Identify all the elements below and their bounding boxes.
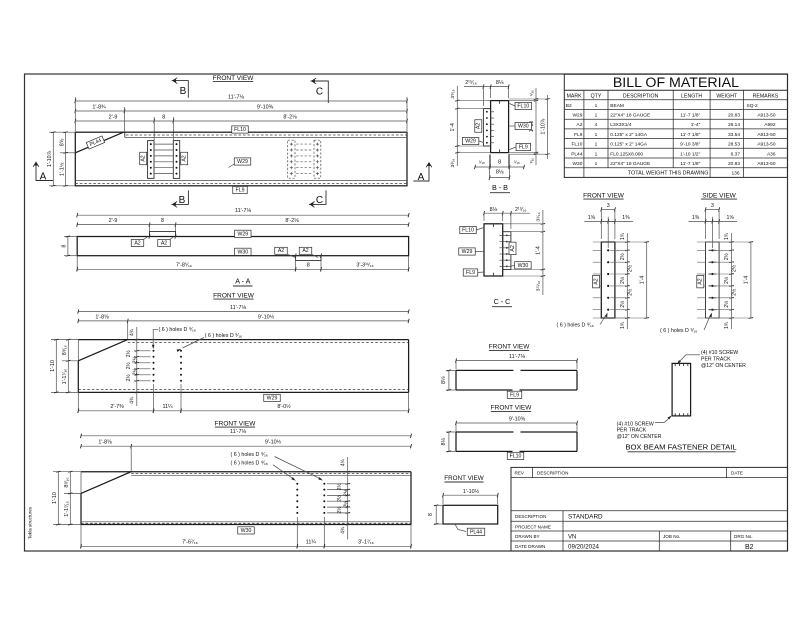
svg-text:1'-10⅞: 1'-10⅞: [540, 118, 546, 134]
svg-text:11'-7 1/8": 11'-7 1/8": [680, 161, 700, 167]
svg-text:22"X4" 18 GAUGE: 22"X4" 18 GAUGE: [610, 161, 650, 167]
label A2 right: [181, 152, 188, 165]
svg-text:1⅝: 1⅝: [726, 215, 734, 221]
svg-text:QTY: QTY: [591, 94, 602, 100]
svg-text:8: 8: [428, 513, 434, 516]
svg-text:7'-8⁵⁄₁₆: 7'-8⁵⁄₁₆: [176, 263, 192, 269]
svg-text:8: 8: [162, 115, 165, 121]
A2 detail top dims: [706, 208, 720, 210]
svg-text:9'-10⅜: 9'-10⅜: [509, 417, 526, 423]
svg-text:A2: A2: [302, 248, 308, 254]
svg-text:FRONT VIEW: FRONT VIEW: [444, 475, 483, 482]
svg-text:1⅝: 1⅝: [588, 215, 596, 221]
svg-text:BOX BEAM FASTENER DETAIL: BOX BEAM FASTENER DETAIL: [625, 443, 737, 452]
FL9 height dim: [446, 369, 456, 371]
label FL10: [232, 126, 249, 133]
svg-text:9'-10½: 9'-10½: [258, 313, 275, 320]
svg-text:W30: W30: [237, 249, 248, 255]
svg-text:¹⁄₁₆: ¹⁄₁₆: [514, 159, 520, 164]
W29 hole spacing chain: [136, 327, 138, 406]
svg-text:( 6 ) holes D ⁹⁄₁₆: ( 6 ) holes D ⁹⁄₁₆: [231, 461, 268, 467]
svg-text:9'-10½: 9'-10½: [265, 439, 282, 446]
svg-text:A2: A2: [141, 155, 147, 161]
svg-text:TOTAL WEIGHT THIS DRAWING: TOTAL WEIGHT THIS DRAWING: [628, 171, 709, 177]
svg-text:11'-7⅛: 11'-7⅛: [228, 95, 244, 101]
svg-text:2½: 2½: [619, 276, 626, 284]
svg-text:DATE DRAWN: DATE DRAWN: [515, 544, 545, 549]
svg-text:3¹¹⁄₁₆: 3¹¹⁄₁₆: [536, 281, 542, 291]
svg-text:FL9: FL9: [466, 270, 475, 276]
svg-text:A2: A2: [134, 240, 140, 246]
section marker A left: [36, 166, 54, 181]
svg-text:1¾: 1¾: [724, 321, 730, 329]
W30 bottom dims: [296, 517, 298, 548]
svg-text:FRONT VIEW: FRONT VIEW: [491, 405, 533, 412]
angle A2 pair near left: [148, 141, 154, 179]
svg-text:2½: 2½: [723, 300, 730, 308]
label A2 left: [140, 152, 147, 165]
svg-text:8: 8: [307, 263, 310, 269]
svg-text:FL10: FL10: [234, 127, 246, 133]
A2 detail overall dim 1-4: [646, 242, 648, 318]
svg-text:0.125" x 2" 14GA: 0.125" x 2" 14GA: [610, 142, 648, 148]
panel W29 dashed flanges: [128, 342, 409, 344]
A-A left dim 8: [64, 236, 77, 238]
svg-text:1'-8¾: 1'-8¾: [92, 105, 106, 111]
svg-text:STANDARD: STANDARD: [568, 513, 603, 520]
svg-text:1'-10⅞: 1'-10⅞: [47, 150, 53, 167]
section marker B bottom: [172, 190, 189, 204]
view1 left dims: [49, 131, 75, 133]
svg-text:1'-10: 1'-10: [52, 492, 58, 504]
W30 hole columns: [296, 483, 298, 485]
A2 detail label: [697, 275, 704, 288]
svg-text:11'-7⅛: 11'-7⅛: [230, 305, 246, 311]
svg-text:( 6 ) holes D ⁹⁄₁₆: ( 6 ) holes D ⁹⁄₁₆: [557, 322, 594, 328]
svg-text:L3X3X1/4: L3X3X1/4: [610, 122, 631, 128]
svg-text:FL9: FL9: [510, 392, 519, 398]
svg-text:2½: 2½: [125, 373, 132, 381]
svg-text:A992: A992: [764, 122, 776, 128]
svg-text:A - A: A - A: [235, 276, 250, 285]
FL10 height dim: [446, 431, 456, 433]
svg-text:4¾: 4¾: [129, 328, 135, 336]
C-C box center ticks: [492, 224, 494, 227]
svg-text:A: A: [40, 171, 47, 182]
svg-text:4: 4: [595, 122, 598, 128]
svg-text:8⅛: 8⅛: [496, 170, 504, 176]
svg-text:BEAM: BEAM: [610, 103, 624, 109]
svg-text:11'-7⅛: 11'-7⅛: [235, 208, 251, 214]
panel W30 dashed flanges: [131, 473, 411, 475]
svg-text:A2: A2: [698, 278, 704, 284]
svg-text:FL9: FL9: [574, 132, 583, 138]
section B-B box: [491, 101, 509, 153]
label W29 with leader: [229, 164, 236, 168]
svg-text:FL10: FL10: [571, 142, 582, 148]
svg-text:PL44: PL44: [571, 151, 583, 157]
A2 detail outline: [706, 242, 720, 318]
svg-text:7'-6⁷⁄₁₆: 7'-6⁷⁄₁₆: [182, 540, 198, 546]
svg-text:8⅝: 8⅝: [59, 138, 65, 146]
svg-text:B: B: [179, 195, 186, 206]
svg-text:2½: 2½: [125, 349, 132, 357]
view1 extension lines: [74, 97, 76, 131]
C-C right chain dims: [542, 210, 544, 295]
svg-text:1¾: 1¾: [620, 321, 626, 329]
svg-text:1⅜: 1⅜: [622, 215, 630, 221]
svg-text:SQ-2: SQ-2: [747, 103, 759, 109]
svg-text:2½: 2½: [343, 488, 350, 496]
FL9 dim 11-7 1/8: [456, 360, 577, 362]
svg-text:2½: 2½: [723, 276, 730, 284]
svg-text:FRONT VIEW: FRONT VIEW: [213, 75, 255, 82]
svg-text:W30: W30: [518, 263, 529, 269]
svg-text:8: 8: [498, 159, 501, 165]
svg-text:20.83: 20.83: [728, 161, 740, 167]
panel W29 web slope cut: [78, 340, 127, 361]
track FL9 hidden lines: [75, 180, 407, 182]
svg-text:( 6 ) holes D ⁹⁄₁₆: ( 6 ) holes D ⁹⁄₁₆: [231, 452, 268, 458]
svg-text:11¼: 11¼: [162, 404, 173, 410]
svg-text:FRONT VIEW: FRONT VIEW: [583, 192, 625, 199]
label FL10: [507, 452, 524, 459]
B-B left chain dims: [456, 86, 458, 166]
svg-text:A36: A36: [767, 151, 776, 157]
A-A bottom dim 7-8 5/16 / 8 / 3-3 11/16: [295, 261, 297, 272]
A-A top angle A2 bump: [150, 232, 176, 237]
svg-text:1'-4: 1'-4: [536, 246, 542, 255]
svg-text:LENGTH: LENGTH: [681, 94, 702, 100]
svg-text:1: 1: [595, 103, 598, 109]
track FL10 hidden lines: [124, 132, 126, 137]
section marker C bottom: [309, 190, 326, 204]
drawing sheet frame: [25, 74, 788, 551]
svg-text:FL9: FL9: [519, 145, 528, 151]
B-B bottom dims: [475, 166, 524, 168]
svg-text:A2: A2: [278, 248, 284, 254]
W30 dim 1-8 5/8 / 9-10 1/2: [81, 445, 411, 447]
svg-text:8⁹⁄₁₆: 8⁹⁄₁₆: [64, 477, 70, 487]
svg-text:2½: 2½: [626, 264, 633, 272]
svg-text:W29: W29: [462, 249, 473, 255]
svg-text:FRONT VIEW: FRONT VIEW: [213, 292, 255, 299]
svg-text:W29: W29: [573, 113, 583, 119]
title block border: [511, 467, 788, 551]
svg-text:W29: W29: [237, 159, 248, 165]
svg-text:20.83: 20.83: [728, 113, 740, 119]
svg-text:3³⁄₁₆: 3³⁄₁₆: [450, 159, 456, 168]
label W30: [238, 527, 255, 534]
panel W29 outline: [78, 339, 408, 341]
svg-text:FL10: FL10: [517, 104, 529, 110]
view1 dim 2-9 / 8 / 8-2 1/8: [75, 120, 407, 122]
svg-text:1¾: 1¾: [620, 232, 626, 240]
label W29: [264, 394, 281, 401]
A-A bottom angle A2 bump: [296, 256, 321, 261]
svg-text:PER TRACK: PER TRACK: [617, 428, 647, 434]
svg-text:DESCRIPTION: DESCRIPTION: [537, 471, 568, 476]
svg-text:DRAWN BY: DRAWN BY: [515, 534, 540, 539]
A2 detail hole chain: [731, 233, 733, 329]
title block rows: [511, 510, 788, 512]
panel W30 outline: [81, 471, 411, 473]
svg-text:26.14: 26.14: [728, 122, 740, 128]
svg-text:22"X4" 18 GAUGE: 22"X4" 18 GAUGE: [610, 113, 650, 119]
A2 detail holes: [607, 249, 609, 251]
svg-text:A2: A2: [476, 123, 482, 129]
B-B right chain dims: [535, 88, 537, 165]
svg-text:2½: 2½: [731, 264, 738, 272]
A2 detail label: [593, 275, 600, 288]
svg-text:9'-10 3/8": 9'-10 3/8": [680, 142, 701, 148]
svg-text:W30: W30: [518, 124, 529, 130]
svg-text:1'-10½: 1'-10½: [463, 488, 480, 495]
C-C W30 strip with A2 bolts: [503, 232, 511, 270]
A-A label W30: [235, 248, 252, 255]
PL44 height dim: [434, 504, 443, 506]
PL44 dim 1-10 1/2: [443, 494, 498, 496]
svg-text:REV: REV: [515, 471, 525, 476]
svg-text:1'-10: 1'-10: [50, 360, 56, 372]
svg-text:( 6 ) holes D ⁹⁄₁₆: ( 6 ) holes D ⁹⁄₁₆: [159, 327, 196, 333]
svg-text:C: C: [316, 86, 323, 97]
A-A labels A2 bottom: [275, 247, 288, 254]
svg-text:JOB No.: JOB No.: [663, 534, 680, 539]
svg-text:DATE: DATE: [731, 471, 743, 476]
svg-text:FL10: FL10: [462, 228, 474, 234]
svg-text:A913-50: A913-50: [757, 161, 775, 167]
svg-text:8: 8: [161, 218, 164, 224]
svg-text:8'-2⅛: 8'-2⅛: [283, 115, 297, 121]
svg-text:C - C: C - C: [494, 297, 511, 306]
svg-text:1⅜: 1⅜: [692, 215, 700, 221]
svg-text:3⁵⁄₁₆: 3⁵⁄₁₆: [450, 89, 456, 98]
svg-text:2½: 2½: [132, 355, 139, 363]
svg-text:8⅛: 8⅛: [496, 80, 504, 86]
svg-text:A2: A2: [161, 240, 167, 246]
plate PL44 slope: [75, 132, 123, 153]
svg-text:11'-7⅛: 11'-7⅛: [230, 429, 246, 435]
svg-text:A2: A2: [594, 278, 600, 284]
B-B top dims: [483, 86, 508, 88]
svg-text:1'-4": 1'-4": [691, 122, 701, 128]
svg-text:2½: 2½: [619, 300, 626, 308]
B-B W29 strip with A2 bolts: [483, 109, 490, 146]
svg-text:1'-1⁷⁄₁₆: 1'-1⁷⁄₁₆: [62, 369, 68, 385]
W30 left dims: [53, 471, 81, 473]
svg-text:1'-8⅝: 1'-8⅝: [98, 440, 112, 446]
svg-text:1'-10 1/2": 1'-10 1/2": [680, 151, 701, 157]
W29 left dims: [51, 339, 78, 341]
A2 detail centerline: [711, 217, 713, 248]
C-C labels: [460, 226, 477, 233]
A2 detail holes: [711, 249, 713, 251]
svg-text:8'-2⅛: 8'-2⅛: [285, 218, 299, 224]
svg-text:2½: 2½: [731, 288, 738, 296]
svg-text:11'-7⅛: 11'-7⅛: [509, 354, 525, 360]
A-A label W29: [235, 230, 252, 237]
svg-text:A2: A2: [510, 245, 516, 251]
svg-text:1'-8⅝: 1'-8⅝: [95, 314, 109, 320]
label PL44 with leader: [455, 524, 466, 531]
svg-text:FL9: FL9: [236, 188, 245, 194]
W30 hole spacing chain: [347, 457, 349, 540]
svg-text:(4) #10 SCREW: (4) #10 SCREW: [701, 350, 738, 356]
section A-A dim 2-9 / 8 / 8-2 1/8: [77, 224, 408, 226]
svg-text:2½: 2½: [125, 361, 132, 369]
svg-text:1: 1: [595, 151, 598, 157]
svg-text:136: 136: [731, 171, 739, 177]
panel W30 web slope cut: [81, 472, 131, 494]
svg-text:11¼: 11¼: [306, 540, 317, 546]
svg-text:DESCRIPTION: DESCRIPTION: [515, 514, 546, 519]
svg-text:2¹⁵⁄₁₆: 2¹⁵⁄₁₆: [465, 80, 476, 86]
svg-text:8⅛: 8⅛: [441, 376, 447, 384]
svg-text:2½: 2½: [336, 494, 343, 502]
B-B box center ticks: [499, 101, 501, 104]
svg-text:3'-3¹¹⁄₁₆: 3'-3¹¹⁄₁₆: [356, 263, 373, 269]
svg-text:¹⁄₁₆: ¹⁄₁₆: [479, 159, 485, 164]
svg-text:4¾: 4¾: [340, 458, 346, 466]
box beam fastener detail section: [672, 363, 691, 416]
section marker B top: [172, 81, 189, 98]
svg-text:VN: VN: [568, 535, 576, 541]
svg-text:W30: W30: [573, 161, 583, 167]
section A-A box outline: [77, 237, 408, 256]
svg-text:( 6 ) holes D ⁹⁄₁₆: ( 6 ) holes D ⁹⁄₁₆: [205, 333, 242, 339]
svg-text:2½: 2½: [619, 252, 626, 260]
svg-text:MARK: MARK: [567, 94, 583, 100]
label PL44: [86, 136, 104, 149]
svg-text:B2: B2: [745, 544, 754, 551]
svg-text:1: 1: [595, 142, 598, 148]
svg-text:6.37: 6.37: [731, 151, 741, 157]
FL10 dim 9-10 3/8: [456, 422, 577, 424]
section C-C box: [484, 224, 503, 276]
svg-text:A2: A2: [577, 122, 583, 128]
svg-text:B2: B2: [566, 103, 572, 109]
svg-text:28.53: 28.53: [728, 142, 740, 148]
svg-text:¹⁄₁₆: ¹⁄₁₆: [529, 90, 534, 96]
svg-text:SIDE VIEW: SIDE VIEW: [702, 192, 736, 199]
svg-text:2½: 2½: [626, 288, 633, 296]
svg-text:4¾: 4¾: [129, 396, 135, 404]
W29 dim 11-7 1/8: [78, 311, 408, 313]
svg-text:8⅛: 8⅛: [441, 437, 447, 445]
svg-text:2½: 2½: [336, 482, 343, 490]
svg-text:A2: A2: [182, 155, 188, 161]
svg-text:FRONT VIEW: FRONT VIEW: [215, 420, 257, 427]
svg-text:PER TRACK: PER TRACK: [701, 356, 731, 362]
svg-text:2½: 2½: [343, 500, 350, 508]
label FL9: [507, 391, 522, 398]
plate FL10 outline with break: [456, 431, 514, 433]
svg-text:3⁵⁄₁₆: 3⁵⁄₁₆: [536, 212, 542, 221]
svg-text:1: 1: [595, 161, 598, 167]
svg-text:2½: 2½: [723, 252, 730, 260]
svg-text:BILL OF MATERIAL: BILL OF MATERIAL: [613, 75, 739, 91]
svg-text:33.54: 33.54: [728, 132, 740, 138]
svg-text:1¾: 1¾: [724, 232, 730, 240]
svg-text:B - B: B - B: [492, 183, 508, 192]
svg-text:9'-10⅜: 9'-10⅜: [257, 105, 274, 111]
svg-text:1'-1⁷⁄₁₆: 1'-1⁷⁄₁₆: [64, 501, 70, 517]
A2 detail top dims: [601, 208, 615, 210]
A2 detail outline: [601, 242, 615, 318]
svg-text:1'-4: 1'-4: [639, 276, 645, 285]
svg-text:2¹⁵⁄₁₆: 2¹⁵⁄₁₆: [515, 207, 526, 213]
svg-text:1'-4: 1'-4: [450, 123, 456, 132]
beam B2 outline: [75, 132, 407, 186]
plate PL44 outline: [443, 505, 498, 524]
svg-text:(4) #10 SCREW: (4) #10 SCREW: [617, 421, 654, 427]
svg-text:DRG No.: DRG No.: [734, 534, 753, 539]
svg-text:FL10: FL10: [510, 453, 522, 459]
plate FL9 outline with break: [456, 369, 514, 371]
svg-text:REMARKS: REMARKS: [753, 94, 779, 100]
svg-text:@12" ON CENTER: @12" ON CENTER: [701, 363, 746, 369]
svg-text:FL0.125X8.000: FL0.125X8.000: [610, 151, 643, 157]
svg-text:09/20/2024: 09/20/2024: [568, 544, 600, 551]
svg-text:¹⁄₁₆: ¹⁄₁₆: [529, 158, 534, 164]
svg-text:DESCRIPTION: DESCRIPTION: [623, 94, 659, 100]
svg-text:( 6 ) holes D ⁹⁄₁₆: ( 6 ) holes D ⁹⁄₁₆: [660, 328, 697, 334]
svg-text:W29: W29: [267, 395, 278, 401]
svg-text:2'-7⅜: 2'-7⅜: [110, 404, 124, 410]
svg-text:W29: W29: [465, 139, 476, 145]
svg-text:11'-7 1/8": 11'-7 1/8": [680, 113, 700, 119]
svg-text:8: 8: [62, 245, 68, 248]
W29 bottom dims: [153, 384, 155, 413]
svg-text:8'-0½: 8'-0½: [277, 403, 291, 410]
svg-text:2½: 2½: [336, 506, 343, 514]
svg-text:8⁹⁄₁₆: 8⁹⁄₁₆: [62, 345, 68, 355]
svg-text:Tekla structures: Tekla structures: [28, 506, 33, 539]
svg-text:W30: W30: [241, 528, 252, 534]
svg-text:B: B: [180, 86, 187, 97]
svg-text:A913-50: A913-50: [757, 113, 775, 119]
revision header row: [511, 477, 788, 479]
svg-text:FRONT VIEW: FRONT VIEW: [489, 344, 531, 351]
svg-text:2'-9: 2'-9: [109, 218, 118, 224]
svg-text:11'-7 1/8": 11'-7 1/8": [680, 132, 700, 138]
svg-text:WEIGHT: WEIGHT: [716, 94, 738, 100]
svg-text:1'-4: 1'-4: [744, 276, 750, 285]
W29 dim 1-8 5/8 / 9-10 1/2: [78, 320, 408, 322]
W29 hole columns: [153, 350, 155, 352]
svg-text:A: A: [418, 172, 425, 183]
hidden angle pair dashed: [288, 140, 295, 178]
W30 dim 11-7 1/8: [81, 435, 411, 437]
svg-text:8⅛: 8⅛: [490, 207, 498, 213]
section marker A right: [414, 166, 430, 181]
view1 dim 11-7 1/8: [75, 100, 407, 102]
svg-text:C: C: [316, 195, 323, 206]
svg-text:1: 1: [595, 132, 598, 138]
svg-text:A913-50: A913-50: [757, 132, 775, 138]
svg-text:2½: 2½: [132, 367, 139, 375]
svg-text:1: 1: [595, 113, 598, 119]
svg-text:PL44: PL44: [470, 529, 482, 535]
svg-text:PROJECT NAME: PROJECT NAME: [515, 524, 551, 529]
svg-text:3: 3: [607, 203, 610, 209]
A2 detail overall dim 1-4: [750, 242, 752, 318]
C-C top dims: [484, 212, 511, 214]
A2 detail hole chain: [626, 233, 628, 329]
bill of material table: [564, 74, 787, 177]
svg-text:3: 3: [711, 203, 714, 209]
